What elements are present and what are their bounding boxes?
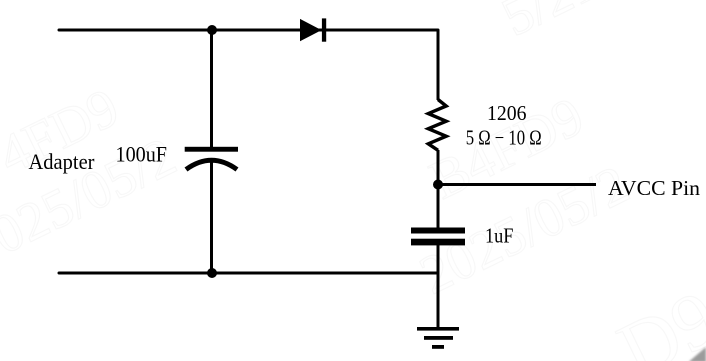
svg-text:1206: 1206 — [487, 101, 527, 125]
resistor R1 1206 — [428, 100, 446, 151]
wire bottom rail — [59, 272, 438, 275]
wire AVCC branch — [438, 183, 596, 186]
wire 100uF bottom lead — [210, 161, 213, 273]
svg-text:Adapter: Adapter — [29, 149, 95, 174]
wire right vertical (top to resistor) — [437, 30, 440, 100]
svg-text:1uF: 1uF — [485, 224, 514, 248]
wire 1uF bottom to ground — [437, 245, 440, 327]
wire 100uF top lead — [210, 30, 213, 147]
diode D1 — [300, 18, 326, 41]
svg-text:100uF: 100uF — [116, 142, 168, 167]
wire top rail — [59, 29, 438, 32]
ground — [417, 327, 459, 349]
capacitor C2 1uF — [411, 228, 465, 246]
node junction AVCC — [433, 180, 443, 190]
svg-text:AVCC Pin: AVCC Pin — [608, 176, 700, 200]
svg-text:5 Ω − 10 Ω: 5 Ω − 10 Ω — [466, 126, 542, 150]
corner fold mark — [689, 347, 706, 361]
node junction top (C1/top rail) — [207, 25, 217, 35]
watermark fragments — [0, 75, 128, 187]
capacitor C1 100uF (polarized) — [185, 147, 238, 170]
node junction bottom (C1/bottom rail) — [207, 268, 217, 278]
wire resistor bottom to 1uF top — [437, 150, 440, 228]
